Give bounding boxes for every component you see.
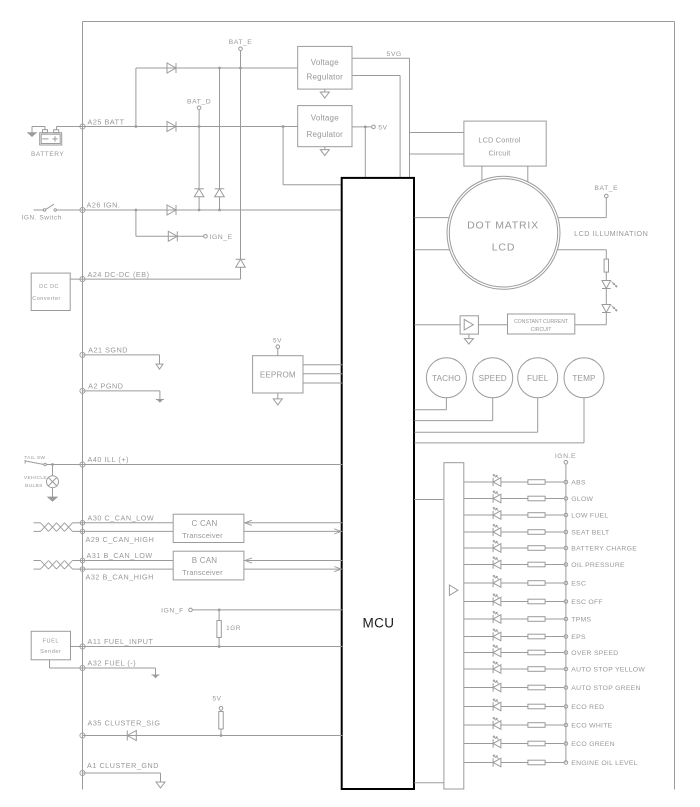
svg-text:BATTERY CHARGE: BATTERY CHARGE [571,546,637,553]
svg-text:MCU: MCU [363,616,395,631]
svg-text:TACHO: TACHO [432,374,461,383]
svg-text:BATTERY: BATTERY [31,151,64,158]
svg-text:A21 SGND: A21 SGND [88,346,128,355]
svg-text:A11 FUEL_INPUT: A11 FUEL_INPUT [88,637,154,646]
svg-text:ECO WHITE: ECO WHITE [571,723,612,730]
svg-text:Voltage: Voltage [311,114,339,123]
svg-text:OVER SPEED: OVER SPEED [571,650,618,657]
svg-text:DC DC: DC DC [39,284,59,290]
svg-text:5V: 5V [273,337,282,344]
svg-text:A24 DC-DC (EB): A24 DC-DC (EB) [88,270,150,279]
svg-text:5V: 5V [212,696,221,703]
svg-text:ABS: ABS [571,480,586,487]
svg-text:LCD: LCD [492,242,515,254]
svg-text:A29 C_CAN_HIGH: A29 C_CAN_HIGH [86,535,155,544]
svg-text:CIRCUIT: CIRCUIT [531,327,553,333]
svg-text:CONSTANT CURRENT: CONSTANT CURRENT [514,319,569,325]
svg-text:TPMS: TPMS [571,617,591,624]
svg-text:Regulator: Regulator [307,130,344,139]
svg-text:AUTO STOP GREEN: AUTO STOP GREEN [571,685,640,692]
svg-text:5VG: 5VG [387,51,402,58]
svg-text:ESC OFF: ESC OFF [571,599,603,606]
svg-text:LOW FUEL: LOW FUEL [571,513,608,520]
svg-text:IGN. Switch: IGN. Switch [22,214,62,221]
svg-text:A1 CLUSTER_GND: A1 CLUSTER_GND [87,761,159,770]
svg-text:AUTO STOP YELLOW: AUTO STOP YELLOW [571,667,645,674]
svg-text:Regulator: Regulator [307,73,344,82]
svg-text:TAIL SW: TAIL SW [24,455,45,461]
svg-text:C CAN: C CAN [192,519,218,528]
svg-text:A40 ILL (+): A40 ILL (+) [88,455,130,464]
svg-text:SPEED: SPEED [479,374,507,383]
svg-text:DOT MATRIX: DOT MATRIX [467,220,539,232]
svg-text:A31 B_CAN_LOW: A31 B_CAN_LOW [87,551,153,560]
svg-text:1GR: 1GR [226,625,241,632]
svg-text:A35 CLUSTER_SIG: A35 CLUSTER_SIG [88,718,161,727]
svg-text:LCD Control: LCD Control [478,136,521,145]
svg-text:ECO RED: ECO RED [571,704,604,711]
svg-text:Sender: Sender [40,649,61,655]
svg-text:A26 IGN.: A26 IGN. [87,201,121,210]
svg-text:5V: 5V [378,125,387,132]
svg-text:A30 C_CAN_LOW: A30 C_CAN_LOW [88,513,155,522]
svg-text:Transceiver: Transceiver [182,531,223,540]
svg-text:Converter: Converter [32,296,61,302]
svg-text:BULBS: BULBS [25,483,43,489]
svg-text:BAT_E: BAT_E [229,39,253,46]
svg-text:EEPROM: EEPROM [260,371,296,380]
svg-text:Voltage: Voltage [311,58,339,67]
svg-text:IGN.E: IGN.E [555,453,576,460]
svg-text:A32 FUEL (-): A32 FUEL (-) [88,659,137,668]
svg-text:A25 BATT: A25 BATT [88,118,125,127]
svg-text:IGN_E: IGN_E [210,234,233,241]
svg-text:BAT_D: BAT_D [187,98,211,105]
svg-text:IGN_F: IGN_F [161,608,184,615]
svg-text:VEHICLE: VEHICLE [24,475,47,481]
svg-text:LCD ILLUMINATION: LCD ILLUMINATION [574,229,648,238]
svg-text:Transceiver: Transceiver [182,568,223,577]
svg-text:FUEL: FUEL [43,638,60,644]
svg-text:B CAN: B CAN [192,556,217,565]
svg-text:A32 B_CAN_HIGH: A32 B_CAN_HIGH [86,573,154,582]
svg-text:ESC: ESC [571,581,586,588]
svg-text:GLOW: GLOW [571,496,593,503]
svg-text:ECO GREEN: ECO GREEN [571,741,615,748]
svg-text:SEAT BELT: SEAT BELT [571,530,609,537]
svg-text:A2 PGND: A2 PGND [88,382,123,391]
svg-text:Circuit: Circuit [488,148,510,157]
svg-text:ENGINE OIL LEVEL: ENGINE OIL LEVEL [571,760,638,767]
svg-text:OIL PRESSURE: OIL PRESSURE [571,562,625,569]
svg-text:FUEL: FUEL [527,374,549,383]
svg-text:TEMP: TEMP [572,374,596,383]
svg-text:EPS: EPS [571,634,586,641]
svg-text:BAT_E: BAT_E [594,185,618,192]
